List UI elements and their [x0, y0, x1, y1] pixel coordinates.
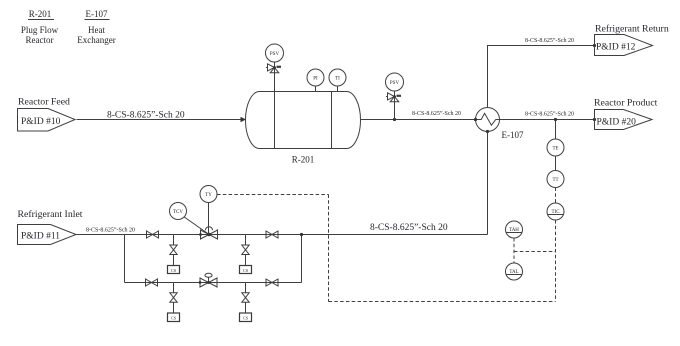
svg-text:R-201: R-201	[29, 9, 52, 19]
svg-text:TE: TE	[552, 147, 558, 152]
svg-text:P&ID #12: P&ID #12	[596, 43, 636, 53]
svg-text:P&ID #11: P&ID #11	[21, 232, 60, 242]
drain tee top-left: stem	[173, 235, 175, 266]
instrument PSV (on R-201)	[266, 44, 284, 62]
svg-text:Refrigerant Inlet: Refrigerant Inlet	[18, 209, 83, 220]
svg-text:Reactor Feed: Reactor Feed	[18, 97, 70, 108]
wire refrigerant inlet pipe	[76, 234, 488, 236]
wire riser to E-107 bottom	[487, 132, 489, 235]
junction dot at P&ID #12	[593, 44, 596, 47]
svg-text:8-CS-8.625”-Sch 20: 8-CS-8.625”-Sch 20	[412, 111, 461, 117]
heat exchanger E-107	[474, 108, 500, 134]
gate valve bypass-left	[146, 279, 158, 286]
svg-text:E-107: E-107	[86, 9, 108, 19]
globe valve bypass body	[199, 273, 217, 287]
svg-text:8-CS-8.625”-Sch 20: 8-CS-8.625”-Sch 20	[370, 223, 448, 233]
instrument TI stem	[337, 86, 339, 92]
drain tee bypass-right: stem	[245, 283, 247, 314]
svg-text:TT: TT	[552, 178, 558, 183]
svg-text:8-CS-8.625”-Sch 20: 8-CS-8.625”-Sch 20	[86, 228, 135, 234]
arrowhead feed into vessel	[241, 117, 247, 122]
signal riser to TY dashed	[328, 195, 330, 302]
svg-text:TI: TI	[335, 77, 340, 82]
wire manifold left drop	[124, 235, 126, 283]
svg-text:TIC: TIC	[551, 210, 560, 215]
legend equipment title R-201	[21, 9, 59, 45]
CS box top-left	[168, 266, 180, 274]
signal alarms to TIC riser dashed	[514, 251, 556, 253]
wire bypass branch	[125, 282, 302, 284]
wire TY stem to actuator	[208, 203, 210, 235]
gate valve top-left	[147, 231, 159, 238]
instrument PI stem	[315, 86, 317, 92]
off-page connector P&ID #10	[18, 109, 76, 132]
CS box bypass-left	[168, 313, 180, 322]
instrument TE	[547, 139, 564, 156]
junction dot at P&ID #20	[593, 118, 596, 121]
instrument TI	[329, 69, 346, 86]
wire manifold right riser	[301, 235, 303, 283]
svg-text:CS: CS	[243, 316, 249, 321]
svg-text:TCV: TCV	[173, 210, 183, 215]
junction dot manifold right	[300, 233, 303, 236]
svg-text:PSV: PSV	[390, 81, 400, 86]
vessel R-201	[246, 92, 361, 149]
legend equipment title E-107	[77, 9, 115, 45]
signal TAH to TAL dashed	[513, 238, 515, 263]
instrument TIC	[547, 203, 564, 220]
instrument TY	[200, 186, 217, 203]
junction dot PSV-2 tap	[393, 118, 396, 121]
svg-text:TY: TY	[205, 193, 212, 198]
drain valve top-right (hourglass)	[242, 245, 249, 255]
svg-text:Refrigerant Return: Refrigerant Return	[595, 24, 669, 35]
svg-text:PSV: PSV	[270, 52, 280, 57]
instrument TT	[547, 171, 564, 188]
off-page connector P&ID #20	[595, 110, 653, 130]
signal TY branch dashed	[217, 194, 329, 196]
gate valve top-right	[266, 231, 278, 238]
svg-text:8-CS-8.625”-Sch 20: 8-CS-8.625”-Sch 20	[525, 38, 574, 44]
wire PSV-1 stem	[274, 62, 276, 92]
instrument PI	[307, 69, 324, 86]
svg-text:CS: CS	[243, 268, 249, 273]
svg-text:PI: PI	[313, 77, 318, 82]
instrument TCV	[170, 203, 187, 220]
svg-text:Exchanger: Exchanger	[77, 35, 115, 45]
drain valve bypass-left (hourglass)	[170, 293, 177, 303]
svg-text:TAH: TAH	[509, 228, 519, 233]
svg-text:8-CS-8.625”-Sch 20: 8-CS-8.625”-Sch 20	[525, 112, 574, 118]
svg-text:CS: CS	[171, 316, 177, 321]
svg-text:8-CS-8.625”-Sch 20: 8-CS-8.625”-Sch 20	[107, 111, 185, 121]
control valve TCV body	[199, 227, 217, 239]
wire TE to TT	[555, 156, 557, 171]
instrument TAL	[506, 263, 523, 280]
CS box bypass-right	[240, 313, 252, 322]
CS box top-right	[240, 266, 252, 274]
instrument TAH	[506, 221, 523, 238]
instrument PSV (product line)	[386, 73, 404, 91]
wire reactor product pipe R-201 to E-107	[361, 119, 476, 121]
drain valve bypass-right (hourglass)	[242, 293, 249, 303]
signal bottom run dashed	[329, 301, 556, 303]
svg-text:P&ID #20: P&ID #20	[597, 118, 637, 128]
wire feed pipe	[77, 119, 242, 121]
relief valve under PSV-1	[266, 64, 281, 73]
drain tee top-right: stem	[245, 235, 247, 266]
relief valve under PSV-2	[386, 93, 401, 102]
wire product pipe E-107 to P&ID #20	[500, 119, 595, 121]
svg-text:CS: CS	[171, 268, 177, 273]
svg-text:R-201: R-201	[292, 155, 315, 165]
junction dot TE tap	[554, 118, 557, 121]
wire PSV-2 stem	[394, 91, 396, 120]
off-page connector P&ID #12	[595, 35, 653, 56]
off-page connector P&ID #11	[18, 225, 77, 245]
wire TE stem	[555, 120, 557, 140]
drain tee bypass-left: stem	[173, 283, 175, 314]
wire refrigerant return riser	[488, 46, 595, 108]
signal TT to TIC dashed	[555, 188, 557, 204]
signal TIC down dashed	[555, 220, 557, 302]
svg-text:Plug Flow: Plug Flow	[21, 25, 59, 35]
gate valve bypass-right	[266, 279, 278, 286]
svg-text:Heat: Heat	[88, 25, 105, 35]
svg-text:P&ID #10: P&ID #10	[21, 117, 61, 127]
svg-text:Reactor Product: Reactor Product	[594, 98, 658, 109]
svg-text:TAL: TAL	[509, 270, 518, 275]
signal TCV to valve	[184, 217, 209, 235]
drain valve top-left (hourglass)	[170, 245, 177, 255]
svg-text:E-107: E-107	[502, 130, 524, 140]
svg-text:Reactor: Reactor	[26, 35, 54, 45]
